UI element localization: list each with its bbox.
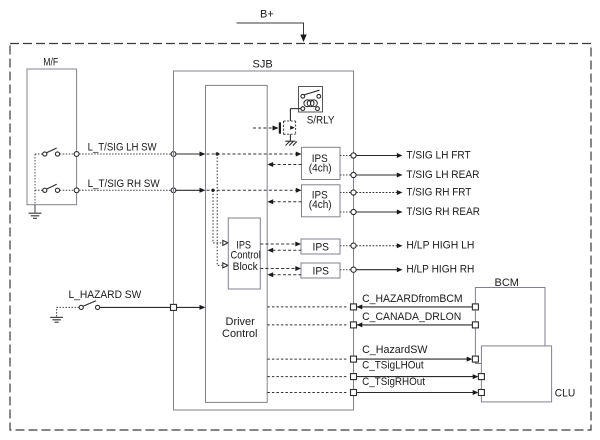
svg-text:IPS: IPS — [313, 242, 330, 254]
svg-text:T/SIG LH REAR: T/SIG LH REAR — [406, 169, 479, 181]
svg-text:Control: Control — [231, 250, 261, 262]
svg-text:T/SIG LH FRT: T/SIG LH FRT — [406, 149, 471, 161]
svg-text:(4ch): (4ch) — [309, 199, 332, 211]
svg-text:L_T/SIG LH SW: L_T/SIG LH SW — [88, 142, 158, 154]
svg-text:T/SIG RH REAR: T/SIG RH REAR — [406, 206, 480, 218]
svg-text:C_HazardSW: C_HazardSW — [362, 344, 428, 356]
svg-text:H/LP HIGH RH: H/LP HIGH RH — [406, 264, 474, 276]
svg-text:C_HAZARDfromBCM: C_HAZARDfromBCM — [362, 293, 463, 305]
svg-text:L_HAZARD SW: L_HAZARD SW — [69, 289, 142, 301]
svg-text:Driver: Driver — [226, 316, 256, 328]
svg-text:M/F: M/F — [43, 57, 58, 69]
svg-text:L_T/SIG RH SW: L_T/SIG RH SW — [88, 178, 161, 190]
svg-text:Control: Control — [222, 328, 257, 340]
svg-text:CLU: CLU — [555, 388, 575, 400]
svg-text:C_CANADA_DRLON: C_CANADA_DRLON — [362, 311, 461, 323]
svg-text:IPS: IPS — [313, 266, 330, 278]
svg-text:BCM: BCM — [495, 277, 520, 289]
svg-text:C_TSigLHOut: C_TSigLHOut — [362, 359, 424, 371]
svg-text:T/SIG RH FRT: T/SIG RH FRT — [406, 186, 471, 198]
svg-text:H/LP HIGH LH: H/LP HIGH LH — [406, 240, 474, 252]
svg-text:C_TSigRHOut: C_TSigRHOut — [362, 376, 425, 388]
svg-text:SJB: SJB — [253, 58, 273, 70]
svg-text:S/RLY: S/RLY — [307, 115, 335, 127]
svg-text:(4ch): (4ch) — [309, 162, 332, 174]
svg-text:B+: B+ — [260, 9, 274, 21]
svg-text:Block: Block — [233, 261, 259, 273]
